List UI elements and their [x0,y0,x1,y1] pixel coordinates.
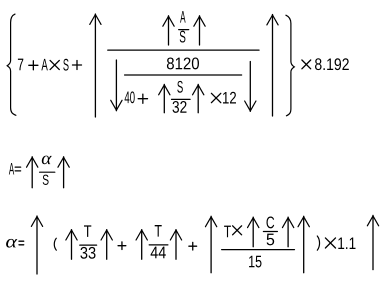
right curly brace [286,15,294,116]
ceiling arrow left of big fraction [205,216,216,272]
text 8120 [167,57,199,69]
open paren [54,238,56,250]
text 32 [173,101,187,113]
ceiling arrow left line2 [27,157,38,188]
text 40 [125,91,135,103]
plus sign line3 b [189,242,197,250]
small denominator S [180,31,186,43]
text 7 [18,59,23,71]
tall ceiling arrow right [267,15,278,117]
fraction bar A/S [179,29,189,31]
plus sign line3 a [118,242,126,250]
ceiling arrow right of T/33 [101,230,112,260]
numerator C of C/5 [267,216,275,228]
plus sign 2 [73,61,82,70]
numerator T big fraction [224,226,231,238]
ceiling arrow right line2 [58,157,69,188]
text 15 [249,256,261,268]
ceiling arrow right of A/S [194,16,205,45]
floor arrow left [111,60,122,111]
equals sign line2 [15,167,20,171]
text A [41,59,47,71]
left curly brace [7,14,16,115]
ceiling arrow right of C/5 [282,217,293,247]
big fraction bar line3 [222,249,295,251]
ceiling arrow right of big fraction [298,216,309,272]
text 44 [151,247,166,259]
text 8.192 [315,58,349,70]
times sign before 12 [211,93,220,102]
ceiling arrow left of T/33 [66,230,77,260]
text 33 [80,247,95,259]
fraction bar C/5 [263,231,277,233]
numerator T of T/44 [155,225,162,237]
ceiling arrow left of C/5 [248,217,259,247]
text A line2 [9,163,14,175]
ceiling arrow left of A/S [163,16,174,45]
main fraction bar [108,49,259,51]
times sign before 1.1 [325,238,335,248]
tall ceiling arrow line3 left [31,216,42,274]
small numerator A [180,11,186,23]
close paren [317,236,319,250]
times sign before 8.192 [302,60,311,69]
small numerator S [177,81,183,93]
fraction bar T/33 [80,244,97,246]
greek alpha line3 [6,239,17,248]
plus sign 1 [29,61,38,70]
ceiling arrow right of S/32 [193,84,204,112]
tall ceiling arrow left [90,14,101,117]
times sign numerator [233,226,242,235]
numerator T of T/33 [84,225,91,237]
ceiling arrow right of T/44 [170,230,181,260]
inner fraction bar [125,74,242,76]
final tall ceiling arrow [367,215,378,269]
times sign 1 [50,60,59,69]
text 12 [223,92,236,104]
floor arrow right [245,62,256,112]
plus sign in denominator [138,94,147,103]
text S [63,59,68,71]
text 5 [267,234,275,246]
fraction bar alpha/S [40,171,55,173]
ceiling arrow left of T/44 [136,230,147,260]
text S line2 [43,175,49,185]
equals sign line3 [19,241,24,245]
greek alpha line2 [42,156,52,165]
text 1.1 [338,237,355,249]
ceiling arrow left of S/32 [159,84,170,112]
fraction bar S/32 [172,98,191,100]
fraction bar T/44 [149,244,168,246]
